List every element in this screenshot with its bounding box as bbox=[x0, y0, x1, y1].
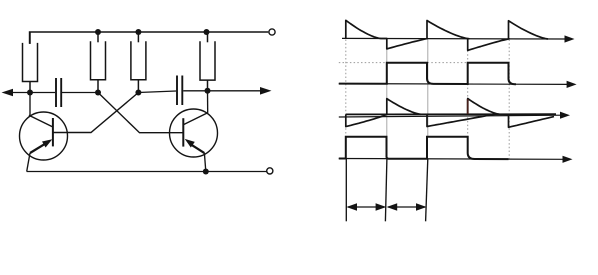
dotted gridline at t4 bbox=[508, 40, 510, 159]
Q1 collector line bbox=[29, 115, 53, 127]
bottom rail bbox=[27, 171, 267, 173]
resistor R2 bbox=[91, 32, 106, 93]
junction dot top rail / R4 bbox=[204, 29, 210, 35]
Q1 collector lead from node A bbox=[29, 93, 31, 116]
dimension arrow span t0-t1 bbox=[348, 206, 385, 208]
Q1 base bar bbox=[52, 118, 54, 146]
transistor Q2 circle bbox=[170, 109, 218, 157]
resistor R3 bbox=[131, 32, 146, 93]
dotted gridline at t3 bbox=[467, 40, 469, 138]
trace 2 waveform (collector square wave) bbox=[339, 63, 516, 84]
trace 4 axis with arrow bbox=[339, 158, 565, 161]
trace 3 up fin at t3 bbox=[468, 99, 500, 115]
top-right supply terminal bbox=[269, 29, 275, 35]
Q2 collector lead to node D bbox=[207, 91, 209, 113]
dimension extension line at t1 bbox=[385, 159, 387, 222]
trace 3 jump tint at t3 bbox=[467, 99, 469, 114]
junction dot top rail / R2 bbox=[95, 29, 101, 35]
trace 3 down fin at t4 bbox=[509, 114, 555, 127]
dimension extension line at t2 bbox=[426, 159, 428, 222]
transistor Q1 circle bbox=[20, 112, 68, 160]
bottom rail junction dot bbox=[203, 169, 209, 175]
trace 3 axis with arrow bbox=[339, 115, 562, 117]
trace 3 down fin at t2 bbox=[427, 114, 495, 126]
trace 3 up fin at t1 bbox=[387, 99, 421, 115]
dimension extension line at t0 bbox=[345, 159, 347, 222]
node A dot bbox=[27, 90, 33, 96]
trace 3 clamp baseline bbox=[346, 113, 556, 115]
gridline at t1 bbox=[386, 40, 388, 138]
trace 3 down fin at t0 bbox=[346, 114, 387, 126]
node C dot bbox=[135, 90, 141, 96]
Q2 base bar bbox=[182, 118, 184, 146]
Q2 emitter lead bbox=[204, 153, 205, 171]
resistor R4 bbox=[200, 32, 215, 91]
bottom-right terminal bbox=[267, 168, 273, 174]
Q1 emitter lead bbox=[27, 153, 30, 172]
Q2 emitter with arrow bbox=[192, 145, 205, 153]
resistor R1 bbox=[23, 32, 38, 93]
top supply rail bbox=[30, 32, 269, 44]
output arrow left bbox=[6, 92, 30, 94]
node D dot bbox=[205, 88, 211, 94]
trace 1 axis with arrow bbox=[342, 37, 567, 40]
output arrow right bbox=[208, 90, 267, 92]
trace 2 axis with arrow bbox=[339, 83, 569, 86]
capacitor C2 bbox=[177, 76, 182, 106]
dotted level line for trace 2 high bbox=[339, 62, 509, 64]
junction dot top rail / R3 bbox=[135, 29, 141, 35]
wire C1 to node B bbox=[62, 92, 98, 94]
dimension arrow span t1-t2 bbox=[388, 206, 425, 208]
wire node A to C1 bbox=[30, 92, 55, 94]
Q1 emitter with arrow bbox=[30, 144, 46, 153]
cross wire node B to Q2 base bbox=[98, 93, 183, 133]
wire node C to C2 bbox=[138, 91, 176, 93]
wire C2 to node D bbox=[183, 90, 207, 92]
cross wire node C to Q1 base bbox=[53, 93, 138, 133]
trace 4 waveform (collector square wave, opposite phase) bbox=[339, 137, 509, 159]
capacitor C1 bbox=[56, 78, 61, 107]
gridline at t2 bbox=[427, 40, 429, 138]
trace 1 waveform (base voltage with exponential humps) bbox=[346, 20, 548, 50]
Q2 collector line bbox=[183, 113, 207, 125]
dotted gridline at t0 bbox=[345, 40, 347, 137]
node B dot bbox=[95, 90, 101, 96]
